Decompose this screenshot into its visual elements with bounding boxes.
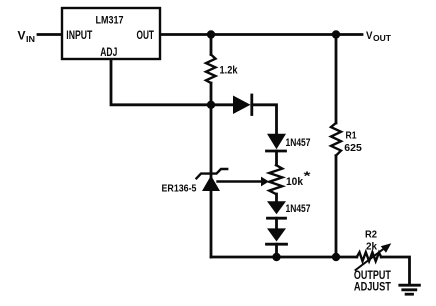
value label 1N457 (D2) — [286, 137, 311, 149]
value label 1.2k — [220, 65, 239, 77]
wire zener anode to bottom rail — [210, 191, 213, 257]
potentiometer 10k — [269, 165, 282, 194]
svg-text:IN: IN — [26, 34, 35, 44]
wire R2 to ground — [381, 257, 409, 284]
svg-text:OUTPUT: OUTPUT — [354, 270, 391, 282]
wire junction to diode D1 — [211, 103, 233, 106]
node junction R1 / bottom rail — [332, 253, 340, 261]
node junction at top of 1.2k — [207, 30, 215, 38]
node junction at top of R1 — [332, 30, 340, 38]
wire R1 column top — [335, 35, 338, 124]
IC U1 LM317 regulator box — [62, 8, 160, 59]
node junction ADJ net — [207, 101, 215, 109]
ground — [400, 284, 420, 287]
svg-text:2k: 2k — [366, 240, 377, 252]
value label 10k* — [286, 169, 311, 188]
svg-text:LM317: LM317 — [96, 15, 124, 27]
wire VIN to INPUT — [38, 33, 61, 36]
node VIN label — [18, 31, 36, 45]
wire 10k to diode D3 — [275, 194, 278, 201]
wire bottom rail — [211, 256, 357, 259]
value label R1 625 — [344, 130, 362, 155]
wire D1 cathode to diode column — [252, 105, 277, 134]
svg-text:1N457: 1N457 — [286, 137, 311, 149]
svg-text:INPUT: INPUT — [66, 28, 92, 42]
wire R1 bottom — [335, 156, 338, 257]
wire OUT to VOUT — [161, 33, 363, 36]
resistor R1 625 — [331, 123, 341, 156]
svg-text:1N457: 1N457 — [286, 203, 311, 215]
node VOUT label — [366, 30, 392, 43]
svg-text:OUT: OUT — [137, 28, 155, 42]
wire D4 to bottom rail — [275, 244, 278, 257]
wire D2 to 10k pot — [275, 151, 278, 165]
svg-text:10k: 10k — [286, 176, 304, 188]
wire D3 to diode D4 — [275, 218, 278, 228]
value label ER136-5 — [162, 182, 197, 194]
wire ADJ pin down and right — [111, 60, 211, 105]
svg-text:ADJ: ADJ — [100, 45, 117, 59]
svg-text:ADJUST: ADJUST — [354, 281, 391, 293]
node junction diode column / bottom rail — [272, 253, 280, 261]
value label R2 2k — [365, 228, 377, 252]
svg-text:R1: R1 — [346, 130, 357, 142]
diode D2 1N457 (pointing down) — [267, 134, 286, 150]
resistor 1.2k — [206, 55, 216, 84]
diode D4 (pointing down) — [267, 228, 286, 241]
svg-text:1.2k: 1.2k — [220, 65, 239, 77]
svg-text:OUT: OUT — [373, 33, 392, 43]
wire 1.2k to junction — [210, 83, 213, 105]
wire top line to 1.2k — [210, 35, 213, 55]
potentiometer R2 2k (horizontal) — [357, 252, 381, 261]
wire zener cathode to 10k wiper (arrow) — [218, 180, 262, 182]
svg-text:*: * — [304, 169, 311, 183]
diode D3 1N457 (pointing down) — [267, 201, 286, 214]
svg-text:V: V — [18, 31, 26, 43]
svg-text:ER136-5: ER136-5 — [162, 182, 197, 194]
value label 1N457 (D3) — [286, 203, 311, 215]
node OUTPUT ADJUST label — [354, 270, 391, 293]
pin labels LM317 / INPUT / OUT / ADJ — [66, 15, 154, 59]
zener diode ER136-5 (cathode up) — [197, 169, 228, 178]
diode D1 (horizontal, pointing right) — [233, 96, 251, 115]
svg-text:R2: R2 — [365, 228, 377, 240]
svg-text:625: 625 — [344, 142, 362, 154]
wire zener column — [210, 105, 213, 177]
